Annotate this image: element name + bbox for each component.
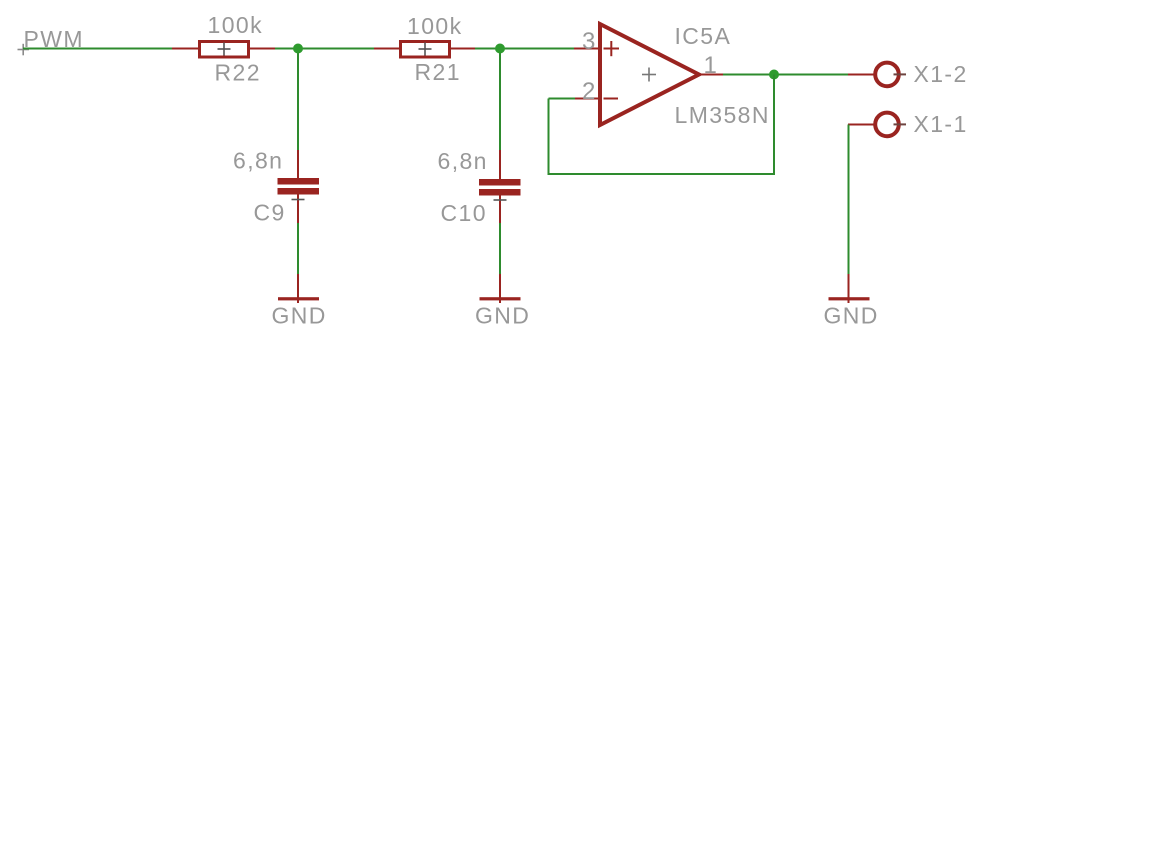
wire: feedback into op-amp pin 2: [549, 98, 576, 100]
svg-text:GND: GND: [272, 303, 327, 329]
wire: node N1 down to C9: [297, 49, 299, 152]
svg-text:X1-1: X1-1: [914, 111, 968, 137]
ground GND (under C9): [278, 274, 319, 303]
svg-text:GND: GND: [824, 303, 879, 329]
junction node N2: [495, 44, 505, 54]
wire: C9 to GND: [297, 223, 299, 275]
wire: feedback bottom run: [549, 173, 776, 175]
junction node N1: [293, 44, 303, 54]
svg-text:1: 1: [704, 52, 719, 79]
svg-text:LM358N: LM358N: [675, 102, 770, 128]
svg-text:IC5A: IC5A: [675, 23, 732, 49]
wire: op-amp output to X1-2: [723, 74, 849, 76]
wire: node N2 from R21 pin 2 to op-amp pin 3: [474, 48, 575, 50]
wire: feedback up to pin 2 level: [548, 99, 550, 176]
svg-text:X1-2: X1-2: [914, 61, 968, 87]
svg-text:100k: 100k: [407, 13, 462, 39]
svg-text:R22: R22: [215, 60, 261, 86]
ground GND (under X1-1): [829, 274, 870, 303]
svg-text:R21: R21: [415, 59, 461, 85]
wire: X1-1 down to GND: [848, 125, 850, 276]
connector pin X1-1: [848, 113, 906, 137]
wire: node N2 down to C10: [499, 49, 501, 152]
svg-text:100k: 100k: [208, 12, 263, 38]
op-amp IC5A body: [600, 24, 699, 125]
wire: C10 to GND: [499, 223, 501, 275]
svg-text:6,8n: 6,8n: [233, 148, 283, 174]
svg-text:C10: C10: [441, 200, 487, 226]
junction node OUT: [769, 70, 779, 80]
svg-text:2: 2: [582, 78, 597, 105]
op-amp IC5A pin 1 (output) lead: [700, 74, 724, 76]
resistor R22: [172, 42, 275, 58]
svg-text:6,8n: 6,8n: [438, 148, 488, 174]
ground GND (under C10): [480, 274, 521, 303]
op-amp IC5A pin 2 lead: [574, 98, 599, 100]
connector pin X1-2: [848, 63, 906, 87]
svg-text:GND: GND: [475, 303, 530, 329]
svg-text:C9: C9: [254, 200, 286, 226]
node PWM origin cross: [18, 44, 30, 56]
capacitor C9: [278, 150, 320, 224]
wire: net PWM from input to R22 pin 1: [23, 48, 173, 50]
svg-text:3: 3: [582, 28, 597, 55]
wire: node N1 from R22 pin 2 to R21 pin 1: [273, 48, 375, 50]
op-amp U IC5A pin 3 lead: [574, 48, 599, 50]
capacitor C10: [479, 150, 521, 224]
wire: feedback from output junction down: [773, 75, 775, 175]
resistor R21: [374, 42, 475, 58]
